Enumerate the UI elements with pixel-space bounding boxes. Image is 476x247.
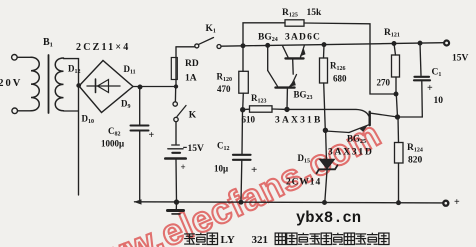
svg-text:1000μ: 1000μ bbox=[101, 139, 124, 149]
svg-text:470: 470 bbox=[217, 84, 231, 94]
svg-text:LY: LY bbox=[221, 234, 235, 246]
bottom rail bbox=[135, 202, 443, 203]
svg-text:3AD6C: 3AD6C bbox=[285, 33, 321, 43]
svg-text:15k: 15k bbox=[307, 8, 323, 18]
capacitor C1 bbox=[420, 43, 421, 75]
resistor R121 270 bbox=[394, 44, 396, 56]
fuse RD 1A bbox=[175, 47, 177, 87]
svg-text:+: + bbox=[181, 162, 186, 172]
node R126 rail bbox=[322, 43, 326, 47]
node R124 rail bbox=[397, 201, 401, 205]
node battery rail bbox=[175, 200, 179, 204]
svg-text:2CW14: 2CW14 bbox=[286, 178, 321, 188]
capacitor C82 bbox=[139, 87, 141, 125]
terminal input bottom bbox=[12, 108, 18, 114]
node rail left end bbox=[134, 199, 142, 204]
transformer core bbox=[48, 55, 50, 113]
svg-text:RD: RD bbox=[185, 59, 199, 69]
svg-text:3AX31D: 3AX31D bbox=[328, 148, 374, 158]
svg-text:10μ: 10μ bbox=[214, 164, 228, 174]
battery minus tick bbox=[183, 146, 187, 148]
wire bridge left vertex down to bottom bbox=[78, 85, 80, 196]
svg-text:220V: 220V bbox=[0, 78, 22, 89]
caption 稳 bbox=[344, 233, 354, 244]
node zener rail bbox=[323, 201, 327, 205]
caption 牌 bbox=[207, 233, 217, 244]
svg-text:3AX31B: 3AX31B bbox=[275, 116, 323, 126]
svg-text:270: 270 bbox=[377, 78, 391, 88]
node R121 bottom bbox=[394, 92, 398, 96]
caption 上 bbox=[184, 234, 195, 244]
node C12 rail bbox=[239, 200, 243, 204]
svg-text:+: + bbox=[454, 197, 460, 208]
svg-text:K: K bbox=[189, 111, 197, 121]
zener diode D 2CW14 bbox=[325, 130, 328, 159]
caption 电 bbox=[367, 233, 378, 245]
node fuse column bbox=[175, 85, 178, 88]
terminal output bottom bbox=[443, 201, 448, 206]
capacitor C12 bbox=[241, 110, 244, 154]
terminal output top bbox=[444, 41, 449, 46]
node bridge left vertex bbox=[77, 84, 80, 87]
wire bridge right vertex to fuse column bbox=[133, 86, 176, 88]
bridge rectifier 2CZ11x4 diamond bbox=[79, 61, 133, 113]
svg-text:+: + bbox=[427, 83, 433, 94]
resistor R124 820 bbox=[397, 117, 400, 143]
terminal input top bbox=[12, 55, 18, 61]
node R123 left bbox=[241, 108, 245, 112]
node K1 junction bbox=[241, 44, 245, 48]
caption 海 bbox=[195, 233, 206, 245]
svg-text:680: 680 bbox=[333, 74, 347, 84]
svg-text:15V: 15V bbox=[452, 54, 469, 64]
caption 型 bbox=[275, 233, 285, 244]
node R126 bottom bbox=[323, 128, 327, 132]
node C1 rail bbox=[418, 41, 422, 45]
svg-text:1A: 1A bbox=[185, 74, 197, 84]
transformer B1 primary winding bbox=[31, 57, 39, 111]
caption 录 bbox=[309, 234, 320, 244]
resistor R125 15k branch bbox=[243, 23, 285, 46]
svg-text:610: 610 bbox=[242, 115, 256, 125]
node C82 tap bbox=[138, 85, 142, 89]
main positive rail bbox=[243, 43, 444, 46]
caption 压 bbox=[355, 234, 366, 244]
svg-text:321: 321 bbox=[252, 234, 269, 246]
caption 源 bbox=[379, 233, 389, 244]
bridge inner diode bbox=[87, 85, 120, 87]
node BG23 base bbox=[285, 107, 289, 111]
resistor R126 680 bbox=[323, 45, 326, 58]
ground bbox=[175, 202, 177, 210]
svg-text:+: + bbox=[149, 130, 155, 141]
node BG25 collector bbox=[396, 115, 400, 119]
node R121 rail bbox=[392, 42, 396, 46]
svg-text:+: + bbox=[251, 164, 257, 176]
svg-text:15V: 15V bbox=[188, 144, 205, 154]
transformer B1 secondary winding bbox=[55, 58, 63, 111]
transistor BG24 3AD6C bbox=[286, 57, 304, 59]
switch K bbox=[174, 87, 176, 102]
svg-text:2CZ11×4: 2CZ11×4 bbox=[76, 42, 130, 53]
svg-text:820: 820 bbox=[408, 156, 423, 166]
battery 15V bbox=[172, 144, 180, 146]
transistor BG23 3AX31B bbox=[276, 86, 295, 88]
caption 机 bbox=[332, 233, 343, 245]
caption 磁 bbox=[287, 233, 297, 244]
wire secondary top to bridge bbox=[64, 59, 79, 85]
caption 带 bbox=[298, 233, 309, 245]
resistor R120 470 bbox=[242, 46, 244, 72]
svg-text:10: 10 bbox=[434, 96, 444, 106]
resistor R123 610 bbox=[243, 108, 250, 110]
node BG23 collector rail bbox=[266, 44, 270, 48]
caption 音 bbox=[321, 233, 331, 244]
wire bbox=[18, 110, 31, 112]
wire secondary bottom stub bbox=[64, 110, 79, 112]
wire BG23 base node to BG25 base bbox=[287, 109, 369, 116]
wire bbox=[17, 56, 31, 58]
transistor BG25 3AX31D bbox=[369, 112, 371, 125]
switch K1 bbox=[176, 46, 195, 48]
svg-text:ybx8.cn: ybx8.cn bbox=[296, 209, 361, 227]
